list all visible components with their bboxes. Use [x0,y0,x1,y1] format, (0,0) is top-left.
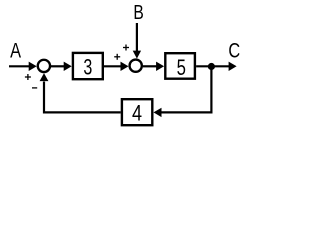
takeoff node (junction dot) [208,63,215,70]
block G1 [73,53,103,79]
svg-text:3: 3 [83,56,92,80]
wire: S1 to block 3 [51,62,72,71]
summing junction S1 [38,60,50,72]
minus sign at S1 feedback input [32,87,37,89]
wire: S2 to block 5 [143,62,164,71]
label value 3 [83,56,92,80]
block G2 [165,53,195,78]
wire: block 3 to summer S2 [104,62,129,71]
plus sign at S1 input A [25,74,31,80]
plus sign at S2 top input [123,45,129,51]
svg-text:4: 4 [132,102,142,126]
plus sign at S2 left input [114,54,120,60]
block H1 [122,99,152,125]
wire: feedback from node down and into block 4 [154,66,212,117]
wire: block 5 to output C [196,62,237,71]
node B label [133,1,143,24]
svg-text:B: B [133,1,143,24]
wire: input B down into S2 [133,23,141,59]
wire: input A into summer S1 [9,62,37,71]
label value 4 [132,102,142,126]
label value 5 [177,56,186,81]
node C label [228,39,240,63]
node A label [10,39,21,62]
svg-text:5: 5 [177,56,186,81]
svg-text:A: A [10,39,21,62]
summing junction S2 [130,60,142,72]
svg-text:C: C [228,39,240,63]
wire: block 4 back to summer S1 [40,73,121,112]
